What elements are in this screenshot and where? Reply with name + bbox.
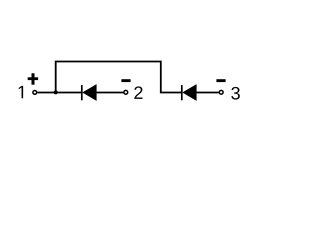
terminal 3 circle	[219, 90, 223, 94]
diode D2 triangle	[182, 84, 196, 101]
node junction dot	[54, 90, 58, 94]
wire: top jumper from node to diode D2 branch	[56, 62, 182, 93]
plus sign at terminal 1	[28, 73, 38, 84]
wire: terminal 1 to diode D1 cathode	[37, 92, 81, 94]
label pin 2	[134, 86, 142, 99]
wire: diode D2 anode to terminal 3	[197, 92, 219, 94]
minus sign at terminal 3	[216, 79, 225, 82]
terminal 1 circle	[33, 91, 37, 95]
minus sign at terminal 2	[121, 79, 130, 82]
label pin 3	[231, 87, 240, 100]
diode D1 cathode bar	[81, 85, 83, 100]
label pin 1	[19, 86, 23, 98]
wire: diode D1 anode to terminal 2	[97, 92, 124, 94]
diode D1 triangle	[82, 84, 96, 101]
terminal 2 circle	[124, 90, 128, 94]
diode D2 cathode bar	[181, 85, 183, 100]
